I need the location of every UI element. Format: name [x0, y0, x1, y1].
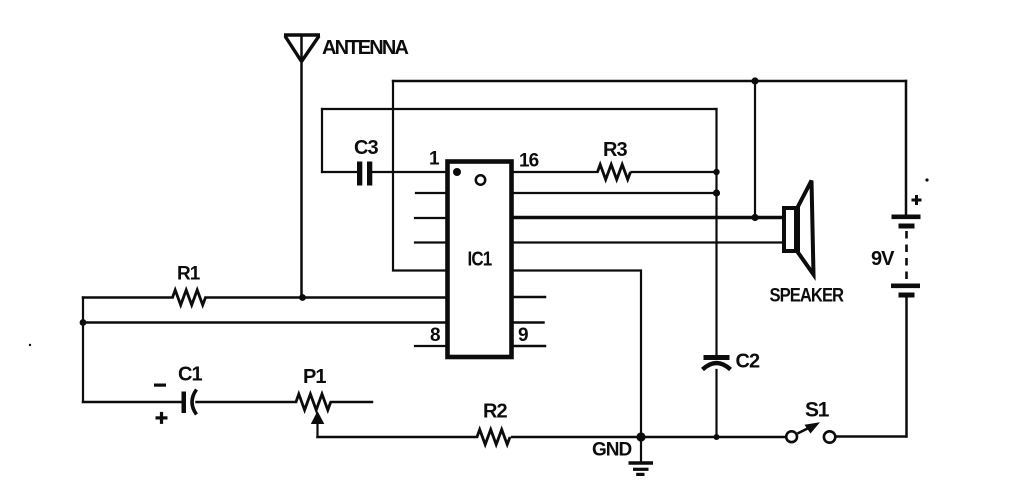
svg-text:9: 9: [518, 325, 529, 346]
svg-text:C1: C1: [178, 364, 202, 386]
svg-text:R1: R1: [177, 264, 201, 285]
svg-text:P1: P1: [303, 366, 326, 388]
svg-text:IC1: IC1: [468, 247, 492, 270]
svg-text:8: 8: [430, 325, 441, 346]
svg-text:ANTENNA: ANTENNA: [322, 37, 409, 59]
svg-text:R2: R2: [483, 401, 507, 423]
svg-text:16: 16: [519, 151, 539, 172]
svg-text:9V: 9V: [871, 248, 895, 270]
svg-text:GND: GND: [592, 440, 632, 461]
svg-text:1: 1: [429, 149, 440, 170]
svg-text:S1: S1: [805, 399, 830, 422]
svg-text:SPEAKER: SPEAKER: [770, 284, 845, 305]
svg-text:R3: R3: [603, 139, 627, 161]
svg-text:C3: C3: [354, 137, 378, 159]
svg-text:C2: C2: [736, 351, 760, 373]
